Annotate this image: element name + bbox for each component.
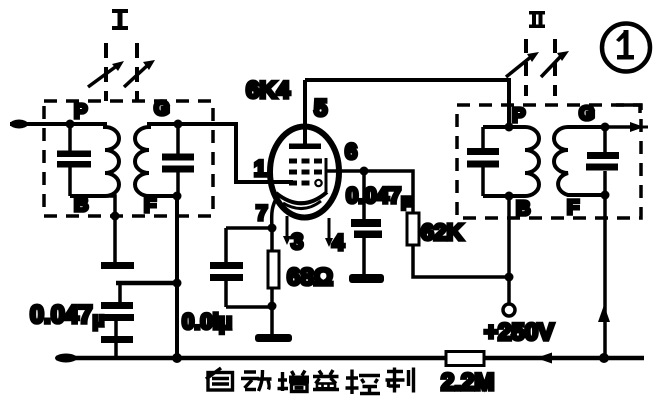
svg-text:6K4: 6K4 — [246, 77, 291, 104]
node G1 — [174, 120, 183, 129]
circled figure number 1 — [602, 24, 650, 72]
T2 tuning arrow left — [506, 52, 539, 77]
svg-text:G: G — [579, 103, 595, 125]
node F1-bus — [172, 353, 182, 363]
svg-text:P: P — [74, 101, 87, 123]
capacitor across T2 primary — [467, 127, 499, 196]
wire F1 down to AGC bus — [175, 196, 179, 358]
svg-text:4: 4 — [332, 230, 345, 255]
pin 5 lead — [303, 80, 307, 146]
svg-text:B: B — [516, 198, 530, 220]
AGC caption: hand-drawn glyphs — [206, 368, 414, 395]
cathode arc outer — [276, 192, 327, 203]
svg-text:G: G — [154, 98, 170, 120]
node G2 — [601, 123, 610, 132]
glyph zeng — [278, 372, 289, 391]
cathode wire to bypass network — [226, 226, 272, 230]
output wire with arrow — [605, 122, 648, 132]
AGC bus right segment — [484, 356, 644, 361]
capacitor 0.047u right — [351, 171, 382, 275]
svg-text:2.2M: 2.2M — [441, 369, 494, 396]
wire G1 to grid pin1 — [178, 124, 293, 182]
wire 62K to +250V node — [413, 245, 509, 277]
T2 secondary winding — [554, 127, 605, 195]
resistor 2.2M — [446, 352, 484, 366]
T1 tuning slug dashed line left — [104, 43, 108, 101]
glyph kong — [346, 370, 359, 395]
node F2-bus — [599, 353, 609, 363]
tube V1 6K4 envelope — [270, 127, 339, 218]
wire B2 down to +250V node — [507, 196, 511, 277]
ground bar (0.047u right) — [349, 274, 384, 283]
node cathode bottom — [268, 302, 277, 311]
stem to AGC bus — [114, 343, 118, 358]
T2 tuning slug dashed line left — [524, 39, 528, 96]
node P1 — [66, 120, 75, 129]
label II (roman numeral above T2) — [529, 11, 545, 28]
glyph yi — [313, 370, 339, 384]
node +250V junction — [505, 273, 514, 282]
node on T1 box bottom edge — [111, 212, 120, 221]
svg-text:6: 6 — [345, 139, 357, 164]
node B2 — [505, 192, 514, 201]
node F1 — [173, 192, 182, 201]
capacitor across T2 secondary — [586, 127, 619, 195]
pin 3 arrow — [283, 216, 291, 245]
node F2 — [601, 191, 610, 200]
AGC bus left segment — [56, 356, 446, 361]
glyph dong — [241, 372, 259, 390]
ground bar (cathode) — [255, 334, 292, 342]
transformer T2 dashed enclosure — [457, 105, 641, 218]
capacitor 0.047u left leads — [118, 283, 122, 302]
transformer T1 dashed enclosure — [44, 101, 213, 216]
svg-text:68Ω: 68Ω — [287, 264, 333, 291]
svg-text:F: F — [567, 197, 579, 219]
wire F2 down to AGC bus — [603, 195, 607, 358]
glyph zhi — [386, 368, 405, 393]
svg-text:F: F — [144, 195, 156, 217]
AGC bus left end blob — [55, 354, 77, 363]
AGC branch wire — [116, 281, 178, 286]
svg-text:+250V: +250V — [484, 319, 554, 346]
capacitor 0.047u left lower lead — [114, 321, 118, 336]
cathode bypass capacitor — [210, 228, 272, 307]
resistor 62K — [407, 213, 419, 245]
T1 tuning slug dashed line right — [135, 43, 139, 101]
resistor 68ohm — [268, 228, 279, 307]
svg-text:7: 7 — [256, 202, 268, 225]
capacitor across T1 secondary — [162, 124, 194, 196]
T2 box solid top-right corner — [616, 105, 640, 113]
svg-text:62K: 62K — [421, 219, 464, 245]
pin 4 arrow — [325, 218, 333, 247]
grid small circle — [315, 180, 321, 186]
+250V terminal circle — [503, 304, 515, 316]
capacitor lower plate bar — [101, 336, 133, 343]
T2 tuning arrow right — [541, 51, 569, 77]
grid right rail — [325, 158, 328, 192]
svg-text:1: 1 — [254, 156, 266, 181]
wire B1 drop — [106, 196, 115, 262]
svg-text:3: 3 — [291, 229, 303, 254]
node pin7 — [268, 224, 277, 233]
capacitor 0.047u left plate 2 — [101, 314, 134, 321]
pin 7 lead — [272, 197, 277, 228]
cathode arc inner — [283, 201, 321, 209]
T1 tuning arrow right — [124, 60, 155, 87]
capacitor C-B1 upper plate bar — [101, 262, 134, 269]
AGC direction arrow up — [598, 305, 610, 322]
svg-text:5: 5 — [314, 95, 327, 122]
bus arrow left — [536, 353, 552, 364]
input wire — [10, 122, 70, 126]
T1 primary winding — [70, 124, 119, 196]
T1 tuning arrow left — [88, 61, 124, 87]
T2 primary winding — [483, 127, 539, 196]
node P2 — [505, 123, 514, 132]
plate bar — [289, 144, 321, 150]
node pin6 — [360, 167, 369, 176]
capacitor across T1 primary — [57, 124, 91, 196]
svg-text:P: P — [512, 105, 525, 127]
T2 tuning slug dashed line right — [553, 39, 557, 96]
capacitor 0.047u left plate 1 — [101, 302, 133, 309]
glyph zi — [206, 368, 221, 379]
T1 secondary winding — [135, 124, 178, 196]
pin 6 wire — [326, 169, 364, 173]
ground lead — [270, 306, 274, 334]
+250V terminal lead — [507, 277, 511, 303]
svg-text:0.0lμ: 0.0lμ — [182, 309, 232, 334]
svg-text:B: B — [74, 194, 88, 216]
label I (roman numeral above T1) — [112, 9, 128, 30]
wire pin6 to 62K — [364, 171, 413, 213]
node on F1 line — [173, 279, 182, 288]
plate wire pin5 to T2 — [305, 80, 509, 127]
grid dashes — [289, 159, 322, 186]
